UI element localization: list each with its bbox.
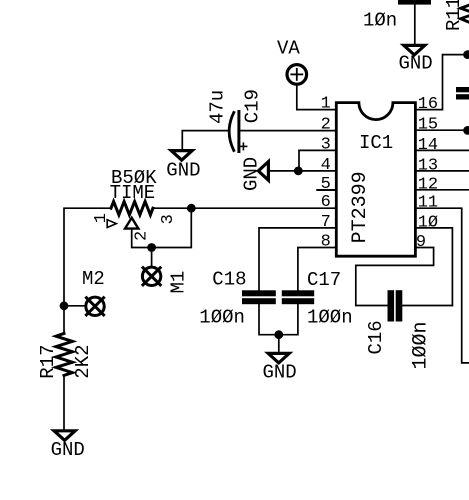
ground (top, under 10n) [404,45,425,55]
svg-text:16: 16 [418,95,438,114]
svg-text:1ØØn: 1ØØn [410,321,433,369]
svg-text:GND: GND [166,159,200,181]
junction (wiper/M1) [147,243,156,252]
svg-text:2K2: 2K2 [72,344,94,378]
svg-text:13: 13 [418,156,438,175]
wire junction to M2 [64,305,86,307]
capacitor C19 (electrolytic) [229,113,234,151]
ground (C17/C18) [268,353,289,363]
svg-text:2: 2 [133,231,152,241]
svg-text:15: 15 [418,116,438,135]
svg-text:R11: R11 [443,0,465,31]
ground (pin4, pointing left) [258,162,268,181]
ground (R17) [54,431,75,441]
wire pin11 down to right edge exit [416,208,469,363]
svg-text:R17: R17 [37,344,59,378]
svg-text:4: 4 [321,156,331,175]
svg-text:GND: GND [263,362,297,384]
svg-text:6: 6 [321,193,331,212]
wire pin4 to GND arrow [268,170,336,172]
wire pin16 net to top-right junction [416,55,469,110]
svg-text:C19: C19 [242,89,264,123]
svg-text:C17: C17 [307,269,341,291]
svg-text:C18: C18 [212,269,246,291]
mount M1 [142,267,160,285]
wire pin10 down to C16 [416,228,453,306]
wire C19 left to GND [182,131,229,150]
wire junction to M1 [151,248,153,267]
mount M2 [86,297,104,315]
potentiometer resistor body [111,202,153,215]
capacitor (right edge, partial, two plates) [456,87,469,92]
svg-text:12: 12 [418,175,438,194]
junction (pin6/pot3) [187,204,196,213]
wire 10n cap to GND [414,5,416,46]
wire pin8 to C17 [298,248,336,291]
svg-text:GND: GND [399,53,433,75]
wire pin3 to pin4 tie [299,150,336,171]
svg-text:14: 14 [418,136,438,155]
svg-text:C16: C16 [365,320,387,354]
capacitor plate (10n, top edge, partially cut) [398,0,431,5]
IC1 PT2399 body [336,103,415,257]
capacitor C17 [282,290,314,296]
capacitor C18 [242,290,276,296]
svg-text:9: 9 [416,233,426,252]
junction (right edge, y=54.6) [463,50,469,59]
wire pot pin3 to IC pin6 [153,207,336,209]
svg-text:3: 3 [159,214,178,224]
junction (M2 rail) [60,301,69,310]
svg-text:11: 11 [418,194,438,213]
svg-text:IC1: IC1 [359,132,393,154]
wire pin7 to C18 [259,228,336,290]
svg-text:VA: VA [277,37,300,59]
wire junction to GND [278,335,280,354]
svg-text:TIME: TIME [110,182,156,204]
wire wiper down and right [132,208,192,247]
resistor R11 (right edge, partial) [461,0,469,24]
svg-text:1: 1 [321,95,331,114]
resistor R17 [56,333,72,375]
svg-text:M1: M1 [168,271,190,294]
junction (C17/C18 gnd) [274,330,283,339]
wire pin12 to right edge [416,189,469,191]
junction (pin15, right edge) [463,126,469,135]
svg-text:5: 5 [321,175,331,194]
svg-text:3: 3 [321,135,331,154]
wire pot left to down rail [64,208,111,333]
pot pin1 arrow [107,220,116,228]
wire C18 bottom to junction [259,304,298,335]
svg-text:1: 1 [92,213,111,223]
wire C19 to pin2 [240,130,336,132]
svg-text:1Øn: 1Øn [363,10,397,32]
wire pin13 to right edge [416,170,469,172]
svg-text:8: 8 [321,233,331,252]
svg-text:PT2399: PT2399 [349,171,372,243]
svg-text:GND: GND [241,157,263,191]
svg-text:2: 2 [321,115,331,134]
svg-text:7: 7 [321,213,331,232]
ground (C19) [171,151,192,161]
wire R17 to GND [63,375,65,430]
wire pin15 to right edge [416,129,469,131]
svg-text:1Ø: 1Ø [418,213,438,232]
pin 5 stub [317,189,336,191]
svg-text:1ØØn: 1ØØn [307,306,353,328]
wire pin9 around to C16 left [356,248,434,306]
svg-text:1ØØn: 1ØØn [199,306,245,328]
wire VA to pin1 [297,85,336,110]
wire C16 right to pin10 rail [402,305,452,307]
wire pin14 to right edge [416,149,469,151]
junction (pin4 net) [294,167,303,176]
capacitor C16 [388,290,395,321]
pot wiper arrow (pin2) [125,218,138,229]
svg-text:M2: M2 [82,268,105,290]
svg-text:47u: 47u [207,90,229,124]
svg-text:GND: GND [51,439,85,461]
